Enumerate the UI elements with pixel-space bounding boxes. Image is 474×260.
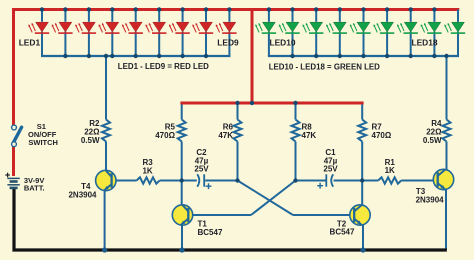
svg-text:BATT.: BATT. [24,184,45,193]
svg-text:BC547: BC547 [198,228,223,237]
svg-text:25V: 25V [194,164,209,173]
svg-text:0.5W: 0.5W [423,136,442,145]
svg-text:LED1: LED1 [19,38,41,48]
svg-text:470Ω: 470Ω [372,131,392,140]
svg-text:LED10 - LED18 = GREEN LED: LED10 - LED18 = GREEN LED [269,62,380,71]
svg-text:25V: 25V [323,164,338,173]
svg-text:2N3904: 2N3904 [68,191,97,200]
svg-text:470Ω: 470Ω [155,131,175,140]
svg-text:BC547: BC547 [330,227,355,236]
svg-text:1K: 1K [142,166,152,175]
svg-text:LED1 - LED9 = RED LED: LED1 - LED9 = RED LED [118,62,209,71]
svg-text:47K: 47K [218,131,233,140]
svg-text:2N3904: 2N3904 [416,195,445,204]
svg-text:LED9: LED9 [217,38,239,48]
svg-text:SWITCH: SWITCH [28,138,58,147]
svg-text:LED18: LED18 [411,38,437,48]
svg-text:1K: 1K [385,166,395,175]
svg-text:0.5W: 0.5W [81,136,100,145]
svg-text:LED10: LED10 [269,38,295,48]
svg-text:47K: 47K [302,131,317,140]
